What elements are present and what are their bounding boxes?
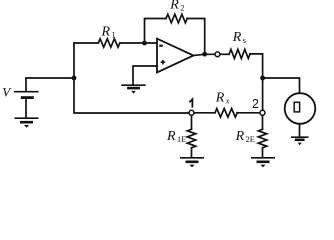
svg-text:R: R [215, 90, 225, 105]
svg-text:1E: 1E [177, 135, 186, 144]
svg-text:2: 2 [180, 4, 184, 13]
svg-text:2: 2 [252, 97, 259, 111]
svg-text:x: x [225, 96, 230, 105]
svg-text:R: R [169, 0, 179, 13]
svg-text:2E: 2E [246, 135, 255, 144]
svg-text:R: R [232, 30, 242, 45]
svg-text:R: R [235, 129, 245, 144]
svg-text:s: s [243, 36, 246, 45]
svg-text:R: R [166, 129, 176, 144]
svg-text:R: R [101, 24, 111, 39]
svg-text:1: 1 [112, 30, 116, 39]
